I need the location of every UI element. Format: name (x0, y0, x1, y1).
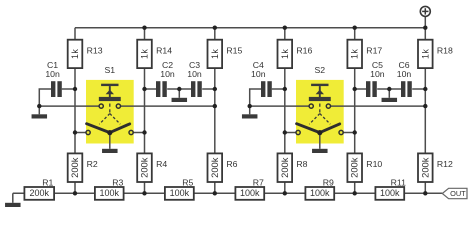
wire: node B to S2 upper left contact (250, 105, 310, 107)
resistor R3 (100k) (95, 187, 124, 200)
junction: rail / column 2 (142, 26, 146, 30)
capacitor C5 (10n) (366, 81, 370, 97)
ground (bottom-left, input rail) (12, 193, 14, 203)
capacitor C6 (10n) (401, 81, 405, 97)
capacitor C4 (10n) (261, 81, 265, 97)
junction: C4 / column 4 (283, 87, 287, 91)
junction: bottom rail / column 5 (353, 191, 357, 195)
wire: positive supply rail (top) (75, 27, 425, 29)
wire: column 2 to C2 (145, 88, 157, 90)
output tag OUT (442, 188, 467, 198)
svg-text:100k: 100k (170, 188, 190, 198)
junction: C2 / column 2 (142, 87, 146, 91)
resistor R16 (1k) (278, 40, 293, 68)
junction: rail / column 5 (353, 26, 357, 30)
wire: vertical column 6 (R18/R12) (424, 28, 426, 194)
svg-text:200k: 200k (29, 188, 49, 198)
resistor R7 (100k) (235, 187, 264, 200)
svg-text:100k: 100k (380, 188, 400, 198)
svg-text:200k: 200k (140, 157, 150, 178)
svg-text:10n: 10n (397, 69, 412, 79)
svg-text:R5: R5 (182, 177, 193, 187)
power terminal + (supply) (420, 6, 430, 16)
capacitor C3 (10n) (191, 81, 195, 97)
switch S1 (push-button, 2-pole) (101, 84, 118, 86)
resistor R2 (200k) (68, 153, 83, 182)
junction: rail / column 3 (213, 26, 217, 30)
svg-text:1k: 1k (140, 49, 150, 59)
svg-text:R17: R17 (366, 46, 382, 56)
resistor R14 (1k) (137, 40, 152, 68)
capacitor C1 (10n) (51, 81, 55, 97)
svg-text:200k: 200k (70, 157, 80, 178)
resistor R13 (1k) (68, 40, 83, 68)
svg-text:100k: 100k (240, 188, 260, 198)
junction: C5 / column 5 (353, 87, 357, 91)
wire: ground node to C6 (389, 88, 401, 90)
resistor R18 (1k) (418, 40, 433, 68)
svg-text:R8: R8 (296, 159, 307, 169)
svg-text:R18: R18 (437, 46, 453, 56)
junction: rail / column 4 (283, 26, 287, 30)
junction: C3 / column 3 (213, 87, 217, 91)
junction: S1 lower left / column 1 (73, 130, 77, 134)
wire: vertical column 4 (R16/R8) (284, 28, 286, 194)
switch S1 highlight (86, 80, 134, 144)
svg-text:200k: 200k (350, 157, 360, 178)
resistor R5 (100k) (165, 187, 194, 200)
wire: C2 to ground node (167, 88, 179, 90)
svg-text:100k: 100k (99, 188, 119, 198)
svg-text:1k: 1k (350, 49, 360, 59)
resistor R15 (1k) (208, 40, 223, 68)
svg-text:R4: R4 (156, 159, 167, 169)
junction: S2 lower right / column 5 (353, 130, 357, 134)
wire: C5 to ground node (377, 88, 389, 90)
ground (C2-C3 junction) (178, 89, 180, 98)
svg-text:R2: R2 (87, 159, 98, 169)
junction: bottom rail / column 1 (73, 191, 77, 195)
switch S2 (push-button, 2-pole) (311, 84, 328, 86)
resistor R4 (200k) (137, 153, 152, 182)
wire: C3 to column 3 (202, 88, 215, 90)
svg-text:10n: 10n (187, 69, 202, 79)
svg-text:R3: R3 (112, 177, 123, 187)
junction: C2-C3 ground node (177, 87, 181, 91)
svg-text:200k: 200k (420, 157, 430, 178)
svg-text:R1: R1 (42, 177, 53, 187)
junction: bottom rail / column 3 (213, 191, 217, 195)
wire: column 1 to S1 lower left contact (75, 132, 86, 134)
svg-text:200k: 200k (210, 157, 220, 178)
svg-text:200k: 200k (280, 157, 290, 178)
svg-text:10n: 10n (370, 69, 385, 79)
svg-text:S1: S1 (104, 65, 115, 75)
svg-text:R12: R12 (437, 159, 453, 169)
junction: rail / + terminal (423, 26, 427, 30)
junction: bottom rail / column 4 (283, 191, 287, 195)
svg-text:R9: R9 (323, 177, 334, 187)
wire: C1 right lead to column 1 (62, 88, 75, 90)
junction: node B (248, 104, 252, 108)
junction: S1 lower right / column 2 (142, 130, 146, 134)
svg-text:1k: 1k (420, 49, 430, 59)
svg-text:10n: 10n (45, 69, 60, 79)
junction: bottom rail / column 2 (142, 191, 146, 195)
ground (S1 wiper) (109, 133, 111, 149)
svg-text:R6: R6 (226, 159, 237, 169)
capacitor C2 (10n) (156, 81, 160, 97)
wire: S2 lower right contact to column 5 (343, 132, 355, 134)
svg-text:OUT: OUT (450, 189, 466, 198)
ground (node B / C4) (249, 106, 251, 114)
ground (S2 wiper) (319, 133, 321, 149)
wire: ground node to C3 (179, 88, 191, 90)
junction: S2 wire / column 6 (423, 104, 427, 108)
svg-text:10n: 10n (160, 69, 175, 79)
junction: C1 / column 1 (73, 87, 77, 91)
junction: node A (37, 104, 41, 108)
svg-text:R16: R16 (296, 46, 312, 56)
svg-text:1k: 1k (280, 49, 290, 59)
resistor R17 (1k) (347, 40, 362, 68)
wire: C4 right lead to column 4 (272, 88, 285, 90)
junction: S1 wire / column 3 (213, 104, 217, 108)
ground (C5-C6 junction) (388, 89, 390, 98)
wire: node A to S1 upper left contact (39, 105, 99, 107)
svg-text:R14: R14 (156, 46, 172, 56)
junction: C5-C6 ground node (387, 87, 391, 91)
ground (node A / C1) (38, 106, 40, 114)
wire: C6 to column 6 (412, 88, 425, 90)
wire: vertical column 2 (R14/R4) (144, 28, 146, 194)
svg-text:10n: 10n (251, 69, 266, 79)
wire: C4 left lead + drop to node B (250, 89, 261, 106)
resistor R10 (200k) (347, 153, 362, 182)
wire: vertical column 5 (R17/R10) (354, 28, 356, 194)
resistor R1 (200k) (24, 187, 54, 200)
resistor R8 (200k) (278, 153, 293, 182)
svg-text:R15: R15 (226, 46, 242, 56)
resistor R12 (200k) (418, 153, 433, 182)
svg-text:S2: S2 (314, 65, 325, 75)
svg-text:R10: R10 (366, 159, 382, 169)
junction: C6 / column 6 (423, 87, 427, 91)
wire: vertical column 3 (R15/R6) (214, 28, 216, 194)
svg-text:R11: R11 (391, 177, 406, 187)
resistor R11 (100k) (375, 187, 404, 200)
junction: S2 lower left / column 4 (283, 130, 287, 134)
svg-text:R7: R7 (253, 177, 264, 187)
junction: bottom rail / column 6 (423, 191, 427, 195)
wire: S1 lower right contact to column 2 (133, 132, 145, 134)
svg-text:100k: 100k (310, 188, 330, 198)
svg-text:1k: 1k (210, 49, 220, 59)
wire: S1 upper right contact to column 3 (120, 105, 215, 107)
wire: supply stub to + terminal (424, 16, 426, 28)
wire: bottom output rail (13, 192, 443, 194)
wire: vertical column 1 (R13/R2) (74, 28, 76, 194)
wire: column 5 to C5 (355, 88, 366, 90)
resistor R6 (200k) (208, 153, 223, 182)
switch S2 highlight (296, 80, 344, 144)
wire: column 4 to S2 lower left contact (285, 132, 296, 134)
svg-text:1k: 1k (70, 49, 80, 59)
wire: C1 left lead + drop to node A (39, 89, 51, 106)
wire: S2 upper right contact to column 6 (330, 105, 425, 107)
svg-text:R13: R13 (87, 46, 103, 56)
resistor R9 (100k) (305, 187, 334, 200)
